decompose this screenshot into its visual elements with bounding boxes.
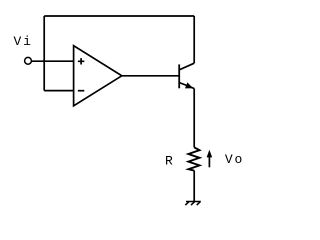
wire to op-amp - input <box>44 90 73 92</box>
svg-text:R: R <box>165 153 175 168</box>
op-amp U1 triangle <box>74 46 122 106</box>
op-amp plus mark <box>78 58 84 64</box>
wire op-amp output to base <box>122 75 179 77</box>
wire resistor to ground <box>193 171 195 202</box>
wire emitter down to resistor <box>193 89 195 148</box>
svg-text:Vo: Vo <box>225 152 244 167</box>
wire feedback top horizontal <box>44 15 194 17</box>
input terminal circle <box>25 57 32 64</box>
wire feedback vertical left <box>43 16 45 91</box>
transistor Q1 emitter arrowhead <box>185 82 193 88</box>
wire feedback right vertical to collector <box>193 16 195 63</box>
Vo arrow shaft <box>208 157 210 168</box>
svg-text:Vi: Vi <box>14 34 33 49</box>
Vo arrowhead <box>207 150 213 158</box>
ground symbol <box>185 202 201 206</box>
op-amp minus mark <box>78 90 84 92</box>
resistor R zigzag <box>188 147 199 170</box>
transistor Q1 base bar <box>178 64 180 88</box>
wire terminal to op-amp + input <box>32 60 74 62</box>
transistor Q1 emitter diagonal <box>179 83 194 89</box>
transistor Q1 collector diagonal <box>179 63 194 70</box>
